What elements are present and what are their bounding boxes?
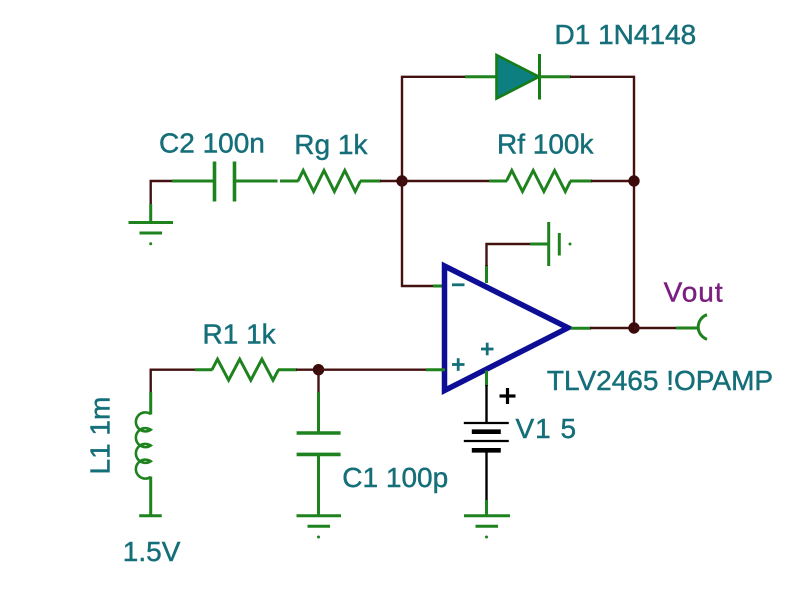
wire: node A to Rf <box>402 180 490 182</box>
wire: V+ pin to battery (black) <box>485 385 487 423</box>
wire: L1 corner to R1 (maroon) <box>151 370 196 392</box>
svg-text:Rg 1k: Rg 1k <box>294 129 368 160</box>
svg-text:L1 1m: L1 1m <box>85 397 116 475</box>
svg-text:D1 1N4148: D1 1N4148 <box>555 19 697 50</box>
op-amp plus sign (supply) <box>481 343 494 356</box>
wire: battery to ground (black) <box>485 452 487 501</box>
svg-text:C1 100p: C1 100p <box>342 462 448 493</box>
1.5V supply terminal bar <box>139 514 162 517</box>
svg-text:Vout: Vout <box>664 277 724 308</box>
wire: node A down to inverting input <box>402 181 434 286</box>
op-amp plus sign (input) <box>452 358 465 371</box>
diode D1 cathode lead <box>540 75 572 78</box>
wire: left corner to C2 (maroon part) <box>150 180 174 182</box>
wire: Rf to output node column <box>591 180 634 182</box>
resistor Rg body <box>298 171 360 192</box>
wire: node C to Vout terminal <box>634 327 677 329</box>
op-amp V- pin lead (green) <box>485 265 488 283</box>
battery V1 plates <box>464 422 509 424</box>
capacitor C1 top lead <box>317 392 320 432</box>
resistor R1 right lead <box>278 368 297 371</box>
op-amp U1 triangle <box>445 266 569 391</box>
inductor L1 bottom lead <box>149 477 152 516</box>
svg-text:TLV2465 !OPAMP: TLV2465 !OPAMP <box>547 365 773 396</box>
junction node A (Rg/Rf/feedback) <box>396 175 407 186</box>
inductor L1 top lead <box>149 392 152 415</box>
wire: Rg to node A <box>380 180 402 182</box>
wire: right vertical from Rf node to output node <box>633 181 635 328</box>
junction node B (Rf/feedback/output column) <box>628 175 639 186</box>
op-amp minus sign <box>452 283 465 286</box>
resistor Rf right lead <box>570 180 592 183</box>
resistor Rg right lead <box>360 180 381 183</box>
capacitor C1 bottom lead <box>317 456 320 515</box>
wire: V- pin to ground (maroon) <box>487 244 532 266</box>
svg-text:R1 1k: R1 1k <box>203 319 277 350</box>
battery ground stem <box>485 500 488 515</box>
wire: R1 to node D <box>296 369 319 371</box>
op-amp non-inverting input lead <box>426 368 445 371</box>
wire: C2 ground drop (maroon) <box>149 181 151 205</box>
ground symbol at C2 <box>129 221 174 224</box>
ground stem (rotated) at V- <box>530 243 548 246</box>
svg-text:Rf 100k: Rf 100k <box>497 129 594 160</box>
resistor R1 left lead <box>195 368 213 371</box>
diode D1 body <box>497 55 540 99</box>
svg-text:1.5V: 1.5V <box>123 536 181 567</box>
ground symbol (rotated) at V- <box>547 222 550 266</box>
resistor Rf body <box>507 171 571 192</box>
capacitor C2 right lead <box>235 180 278 183</box>
svg-text:V1 5: V1 5 <box>516 413 578 444</box>
diode D1 cathode bar <box>538 54 541 100</box>
Vout terminal arc <box>698 315 707 340</box>
capacitor C2 plates <box>213 162 217 202</box>
ground stem at C2 <box>149 204 152 222</box>
ground symbol at battery <box>464 514 510 517</box>
capacitor C2 left lead <box>172 180 214 183</box>
wire: feedback left vertical (node A to top corner) <box>402 77 466 181</box>
wire: node D down to C1 (maroon) <box>317 370 319 393</box>
junction node D (R1/C1/+input) <box>313 364 324 375</box>
wire: feedback right (top corner down to output node) <box>570 77 634 181</box>
capacitor C1 plates <box>297 431 341 435</box>
op-amp inverting input lead <box>433 285 445 288</box>
Vout terminal lead <box>676 327 698 330</box>
resistor Rf left lead <box>489 180 507 183</box>
op-amp output lead <box>571 327 591 330</box>
resistor R1 body <box>212 359 279 380</box>
wire: node D to non-inverting input <box>319 369 428 371</box>
battery V1 plus sign <box>500 388 516 404</box>
junction node C (output) <box>628 322 639 333</box>
resistor Rg left lead <box>280 180 299 183</box>
inductor L1 coil <box>136 412 151 478</box>
diode D1 anode lead <box>465 75 497 78</box>
svg-text:C2 100n: C2 100n <box>159 128 265 159</box>
wire: output to node C <box>590 327 634 329</box>
ground symbol at C1 <box>297 514 342 517</box>
op-amp V+ pin lead (green) <box>485 371 488 387</box>
